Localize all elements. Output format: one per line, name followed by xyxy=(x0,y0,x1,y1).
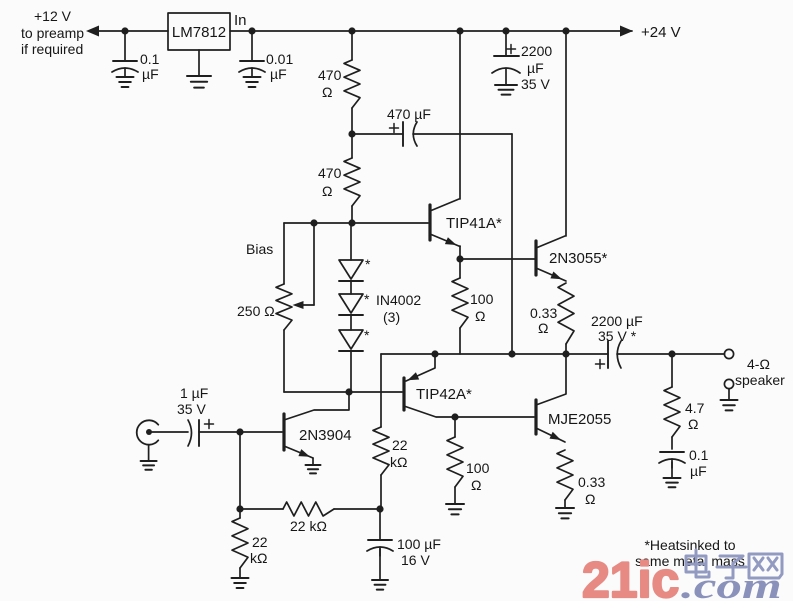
resistor R 100 ohm lower xyxy=(447,417,463,504)
svg-text:22 kΩ: 22 kΩ xyxy=(290,518,327,534)
label 100 ohm lower xyxy=(466,460,490,493)
node junction (0.1uF tap) xyxy=(121,27,128,34)
svg-text:2200 µF: 2200 µF xyxy=(591,313,643,329)
svg-text:470: 470 xyxy=(318,67,342,83)
capacitor 0.01 uF xyxy=(239,61,265,77)
label 2200 uF 35 V * xyxy=(591,313,643,344)
svg-text:100: 100 xyxy=(466,460,490,476)
svg-text:16 V: 16 V xyxy=(401,552,430,568)
resistor R 0.33 ohm upper xyxy=(558,283,574,354)
svg-text:Ω: Ω xyxy=(688,416,698,432)
node junction (feedback right) xyxy=(376,505,383,512)
svg-text:0.33: 0.33 xyxy=(578,474,605,490)
svg-text:*: * xyxy=(364,291,370,307)
wire LM7812 ground lead xyxy=(198,50,200,76)
resistor R 100 ohm driver xyxy=(452,259,468,354)
transistor Q TIP42A base bar xyxy=(402,378,405,410)
node junction (2N3904 base) xyxy=(236,428,243,435)
label 250 ohm xyxy=(237,303,275,319)
svg-text:Ω: Ω xyxy=(585,491,595,507)
wire diode chain bottom xyxy=(350,351,352,392)
transistor Q 2N3055 base bar xyxy=(534,241,537,275)
watermark glyph dian xyxy=(686,550,709,577)
wire feedback cap drop xyxy=(379,509,381,540)
label 0.01 uF xyxy=(266,51,293,82)
label + (2200uF filter) xyxy=(507,45,516,54)
ground (100uF) xyxy=(372,580,388,590)
wire 2200uF drop xyxy=(505,31,507,56)
wire rail from LM7812 to +24V arrow xyxy=(230,30,632,32)
svg-text:*: * xyxy=(364,327,370,343)
wire bias bottom rail xyxy=(284,391,402,393)
ground (0.33 lower) xyxy=(556,508,574,518)
ground (22k shunt) xyxy=(232,578,249,588)
svg-text:0.33: 0.33 xyxy=(530,305,557,321)
node junction (pot wiper tie) xyxy=(310,219,317,226)
label 2N3055* xyxy=(549,250,608,267)
svg-text:470: 470 xyxy=(318,165,342,181)
node junction (driver emitter) xyxy=(456,255,463,262)
diode D2 IN4002 xyxy=(339,294,363,315)
wire feedback drop xyxy=(380,354,382,427)
svg-text:Ω: Ω xyxy=(322,183,332,199)
node junction (bootstrap at output) xyxy=(508,350,515,357)
node junction (zobel tap) xyxy=(668,350,675,357)
ground (LM7812) xyxy=(187,76,211,88)
label Bias xyxy=(246,241,273,257)
diode D1 IN4002 xyxy=(339,260,363,281)
svg-text:µF: µF xyxy=(142,66,159,82)
svg-text:22: 22 xyxy=(392,437,408,453)
label IN4002 (3) xyxy=(376,292,421,325)
note heatsink xyxy=(635,537,745,569)
svg-text:kΩ: kΩ xyxy=(250,550,267,566)
transistor Q 2N3055 collector xyxy=(536,236,565,248)
resistor R 470 ohm lower xyxy=(344,134,360,223)
capacitor 0.1 uF xyxy=(112,61,138,77)
transistor Q MJE2055 emitter xyxy=(536,428,565,442)
svg-text:LM7812: LM7812 xyxy=(172,24,226,41)
wire bias left leg lower xyxy=(283,330,285,392)
svg-text:+12 V: +12 V xyxy=(34,8,72,24)
ground (0.01 uF) xyxy=(244,77,261,87)
label 0.1 uF zobel xyxy=(689,447,709,479)
svg-text:*: * xyxy=(365,256,371,272)
svg-text:µF: µF xyxy=(527,60,544,76)
label * (D2) xyxy=(364,291,370,307)
label +24 V xyxy=(641,24,681,41)
speaker terminal top xyxy=(724,349,733,358)
ground (0.1 uF) xyxy=(117,77,134,87)
capacitor 0.1 uF zobel xyxy=(659,452,685,478)
node junction (feedback left) xyxy=(236,505,243,512)
wire D2-D3 xyxy=(350,315,352,330)
transistor Q TIP42A collector xyxy=(404,406,455,417)
svg-text:35 V: 35 V xyxy=(521,76,550,92)
svg-text:4.7: 4.7 xyxy=(685,400,705,416)
node junction (TIP42A emitter) xyxy=(431,350,438,357)
svg-text:µF: µF xyxy=(690,463,707,479)
svg-text:2N3055*: 2N3055* xyxy=(549,250,608,267)
svg-text:if required: if required xyxy=(21,41,83,57)
transistor Q TIP41A base bar xyxy=(428,205,431,240)
resistor R 22k feedback xyxy=(373,427,389,509)
svg-text:MJE2055: MJE2055 xyxy=(548,411,611,428)
label + (470uF) xyxy=(390,124,399,133)
svg-text:21ic: 21ic xyxy=(582,552,679,601)
svg-text:2N3904: 2N3904 xyxy=(299,427,352,444)
svg-text:470 µF: 470 µF xyxy=(387,106,431,122)
svg-text:Bias: Bias xyxy=(246,241,273,257)
node junction (VAS collector) xyxy=(345,388,352,395)
arrow +12V (left) xyxy=(86,26,99,37)
wire jack to cap xyxy=(152,431,188,433)
watermark .com xyxy=(681,565,782,606)
transistor Q 2N3055 emitter xyxy=(536,268,566,281)
wire bootstrap down to output xyxy=(511,134,513,354)
wire TIP41A collector drop xyxy=(459,31,461,199)
capacitor 100 uF 16V xyxy=(367,540,393,580)
diode D3 IN4002 xyxy=(339,330,363,351)
wire bootstrap left xyxy=(352,133,403,135)
resistor R 0.33 ohm lower xyxy=(557,450,573,508)
node junction (TIP42A collector node) xyxy=(451,413,458,420)
svg-text:0.1: 0.1 xyxy=(689,447,709,463)
node junction (0.33/collector at output) xyxy=(562,350,569,357)
label * (D1) xyxy=(365,256,371,272)
wire 0.01uF drop xyxy=(251,31,253,61)
node junction (2N3055 collector tap) xyxy=(562,27,569,34)
resistor R 4.7 ohm xyxy=(664,354,680,449)
label MJE2055 xyxy=(548,411,611,428)
wire bootstrap right xyxy=(413,133,512,135)
svg-text:*Heatsinked to: *Heatsinked to xyxy=(644,537,735,553)
label +12 V to preamp if required xyxy=(21,8,84,57)
svg-text:+24 V: +24 V xyxy=(641,24,681,41)
transistor Q TIP41A collector xyxy=(430,199,459,211)
ground (100 ohm lower) xyxy=(446,504,464,514)
wire TIP42A collector to MJE2055 base xyxy=(455,416,534,418)
svg-text:IN4002: IN4002 xyxy=(376,292,421,308)
label 2N3904 xyxy=(299,427,352,444)
label 4-ohm speaker xyxy=(735,356,785,388)
capacitor 1 uF input xyxy=(188,420,199,446)
wire output rail right xyxy=(617,353,725,355)
label * (D3) xyxy=(364,327,370,343)
resistor R 22k series xyxy=(240,502,380,516)
transistor Q MJE2055 base bar xyxy=(534,400,537,434)
label 22k input shunt xyxy=(250,534,268,566)
label 470 uF xyxy=(387,106,431,122)
label 1 uF 35 V xyxy=(177,385,208,417)
svg-text:µF: µF xyxy=(270,66,287,82)
svg-text:to preamp: to preamp xyxy=(21,25,84,41)
svg-text:100 µF: 100 µF xyxy=(397,536,441,552)
wire diode chain top xyxy=(350,223,352,260)
svg-text:1 µF: 1 µF xyxy=(180,385,208,401)
label 100 ohm driver xyxy=(470,291,494,324)
svg-text:35 V *: 35 V * xyxy=(598,328,637,344)
svg-text:4-Ω: 4-Ω xyxy=(747,356,770,372)
transistor Q 2N3904 base bar xyxy=(282,414,285,450)
wire 0.1uF drop xyxy=(124,31,126,61)
watermark glyph zi xyxy=(717,556,746,578)
node junction (2200uF filter tap) xyxy=(502,27,509,34)
svg-text:Ω: Ω xyxy=(538,320,548,336)
label 22 kohm series xyxy=(290,518,327,534)
wire base node drop xyxy=(239,432,241,509)
wire TIP41A emitter drop xyxy=(459,246,461,259)
label + (output cap) xyxy=(596,360,605,369)
pot wiper xyxy=(293,223,315,309)
svg-text:TIP41A*: TIP41A* xyxy=(446,215,502,232)
label TIP42A* xyxy=(416,386,472,403)
wire +12V feed to preamp xyxy=(98,30,168,32)
wire driver emitter to 2N3055 base xyxy=(460,258,535,260)
label 0.33 ohm lower xyxy=(578,474,605,507)
svg-text:Ω: Ω xyxy=(322,84,332,100)
ground (input jack) xyxy=(141,461,157,470)
ground (speaker) xyxy=(721,400,738,410)
label 470 ohm lower xyxy=(318,165,342,199)
label 4.7 ohm xyxy=(685,400,705,432)
speaker terminal bottom xyxy=(724,379,733,388)
svg-text:Ω: Ω xyxy=(475,308,485,324)
ground (2N3904 emitter) xyxy=(306,465,321,473)
capacitor 470 uF bootstrap xyxy=(403,122,417,146)
transistor Q TIP42A emitter xyxy=(406,354,435,381)
label 2200 uF 35 V xyxy=(521,43,552,92)
wire bias top rail xyxy=(284,222,428,224)
svg-text:speaker: speaker xyxy=(735,372,785,388)
svg-text:2200: 2200 xyxy=(521,43,552,59)
regulator U1 LM7812 xyxy=(168,13,230,50)
label In pin xyxy=(234,12,247,29)
node junction (bootstrap tap) xyxy=(348,130,355,137)
resistor R 470 ohm upper xyxy=(344,31,360,134)
node junction (470 chain top) xyxy=(348,27,355,34)
label 22k feedback xyxy=(390,437,408,470)
wire jack ground xyxy=(148,445,150,461)
transistor Q TIP41A emitter xyxy=(430,234,460,247)
svg-text:250 Ω: 250 Ω xyxy=(237,303,275,319)
label TIP41A* xyxy=(446,215,502,232)
wire cap to base node xyxy=(199,431,240,433)
watermark glyph wang xyxy=(749,554,782,578)
label 100 uF 16 V xyxy=(397,536,441,568)
svg-text:35 V: 35 V xyxy=(177,401,206,417)
node junction (bias chain top) xyxy=(348,219,355,226)
input jack xyxy=(137,420,159,444)
ground (zobel) xyxy=(664,478,681,487)
wire base node to 2N3904 xyxy=(240,431,282,433)
watermark 21ic xyxy=(582,552,679,606)
transistor Q 2N3904 emitter xyxy=(284,446,313,465)
wire bias left leg upper xyxy=(283,223,285,284)
label 0.33 ohm upper xyxy=(530,305,557,336)
transistor Q MJE2055 collector xyxy=(536,354,566,405)
svg-text:In: In xyxy=(234,12,247,29)
potentiometer 250 ohm xyxy=(276,284,292,330)
label 470 ohm upper xyxy=(318,67,342,100)
svg-text:Ω: Ω xyxy=(471,477,481,493)
wire speaker return xyxy=(728,389,730,400)
ground (2200uF filter) xyxy=(495,85,517,95)
svg-text:0.01: 0.01 xyxy=(266,51,293,67)
transistor Q 2N3904 collector xyxy=(284,392,349,420)
label + (input cap) xyxy=(205,420,214,429)
arrow +24V (right) xyxy=(620,26,633,37)
wire D1-D2 xyxy=(350,281,352,294)
svg-text:0.1: 0.1 xyxy=(140,51,160,67)
svg-text:TIP42A*: TIP42A* xyxy=(416,386,472,403)
capacitor 2200 uF 35V filter xyxy=(492,56,520,85)
svg-text:100: 100 xyxy=(470,291,494,307)
wire output rail xyxy=(381,353,608,355)
svg-text:22: 22 xyxy=(252,534,268,550)
resistor R 22k input shunt xyxy=(232,509,248,578)
svg-text:kΩ: kΩ xyxy=(390,454,407,470)
label 0.1 uF xyxy=(140,51,160,82)
node junction (0.01uF tap) xyxy=(248,27,255,34)
node junction (TIP41A collector tap) xyxy=(456,27,463,34)
capacitor 2200 uF 35V output xyxy=(608,341,621,368)
svg-text:(3): (3) xyxy=(383,309,400,325)
wire 2N3055 collector drop xyxy=(565,31,567,236)
